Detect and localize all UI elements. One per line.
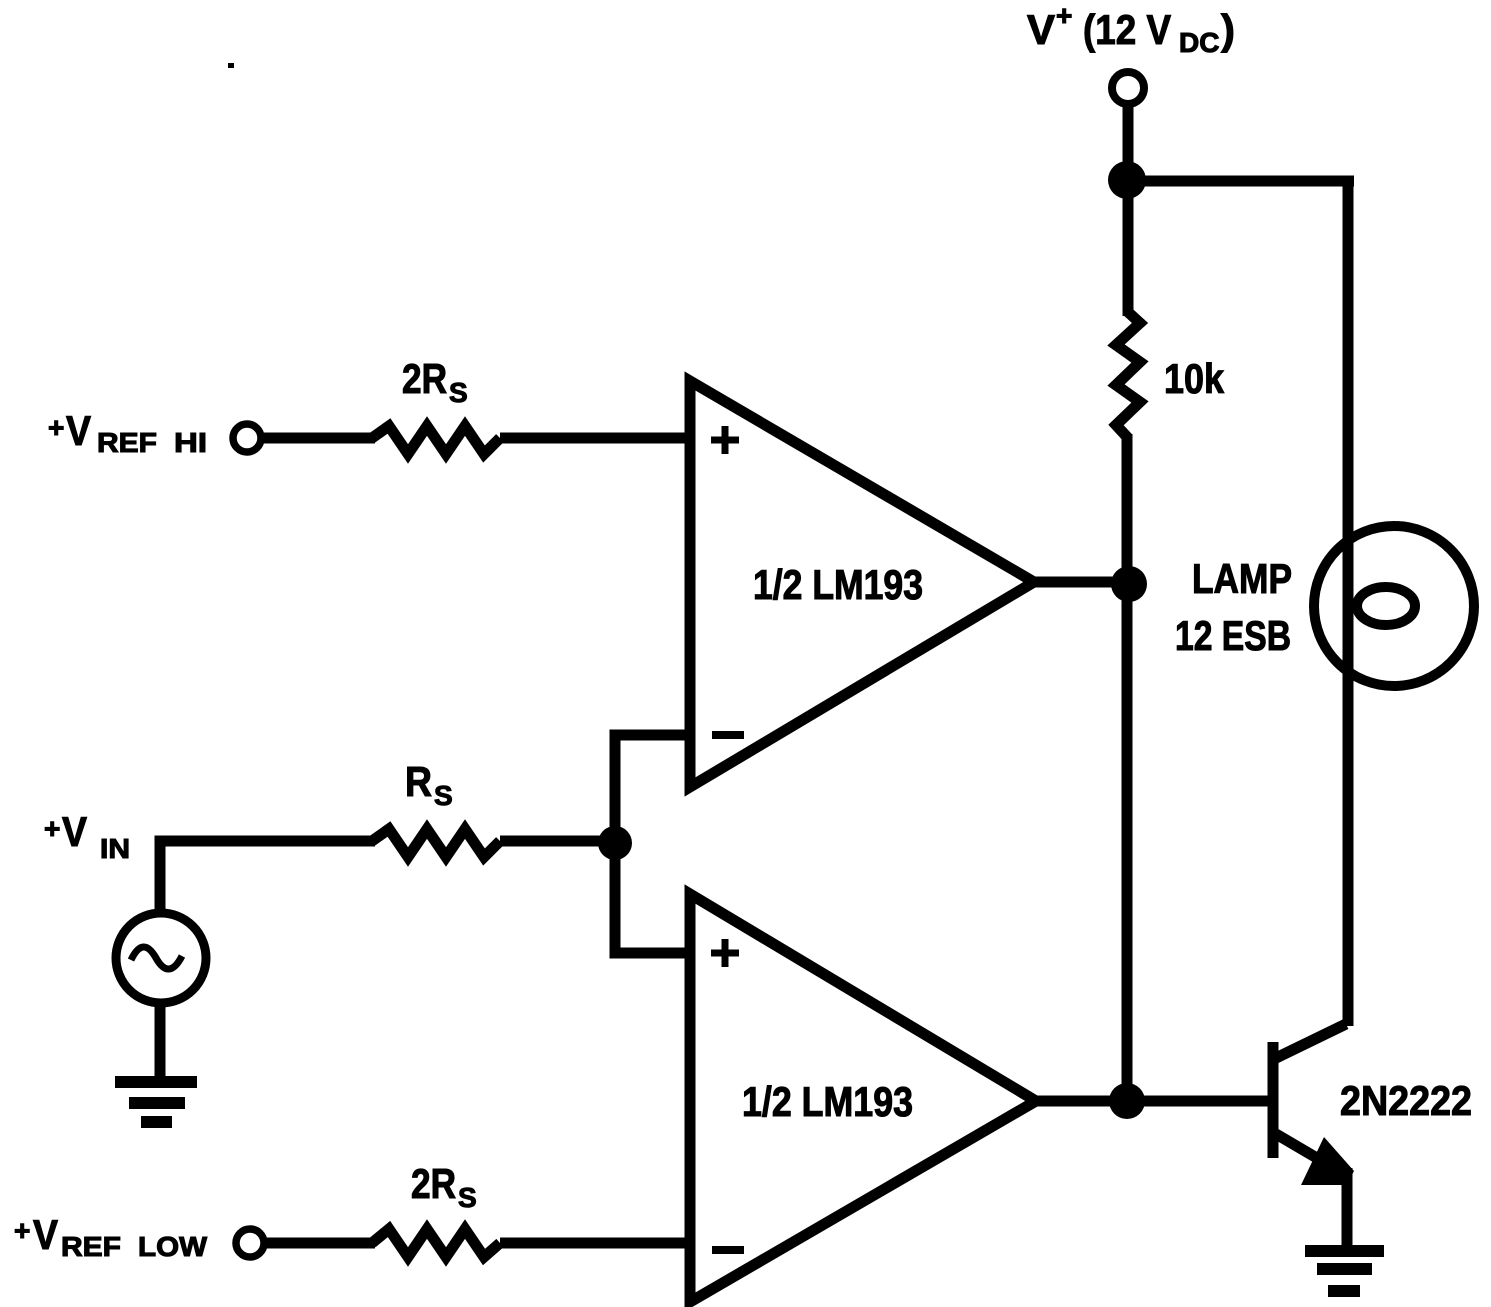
- svg-text:S: S: [449, 377, 468, 408]
- transistor emitter: [1276, 1134, 1322, 1161]
- svg-text:DC: DC: [1179, 27, 1219, 58]
- svg-text:+: +: [48, 412, 64, 443]
- wire op-amp U1A output: [1034, 577, 1127, 588]
- svg-text:V: V: [66, 407, 91, 454]
- label resistor value RS: [405, 758, 453, 811]
- wire resistor to U1B minus input: [500, 1238, 695, 1249]
- label V+ (12 VDC): [1027, 0, 1235, 58]
- wire source to ground: [155, 1003, 166, 1082]
- terminal +VREF LOW: [236, 1229, 264, 1257]
- op-amp U1A 1/2 LM193: [690, 381, 1034, 787]
- wire V+ terminal to junction: [1123, 104, 1134, 316]
- wire lamp branch vertical down to collector: [1343, 181, 1354, 1026]
- svg-text:V: V: [1027, 6, 1055, 53]
- label +VREF HI: [48, 407, 207, 458]
- label resistor value 2RS (top): [402, 355, 468, 408]
- node comparator output junction (bottom): [1109, 1083, 1145, 1119]
- svg-text:HI: HI: [174, 427, 207, 458]
- transistor emitter arrow: [1301, 1137, 1354, 1185]
- svg-text:R: R: [405, 758, 432, 805]
- resistor 2RS (bottom): [372, 1229, 500, 1257]
- op-amp U1B 1/2 LM193: [690, 894, 1036, 1302]
- svg-text:2R: 2R: [411, 1160, 456, 1207]
- svg-text:1/2 LM193: 1/2 LM193: [742, 1078, 913, 1125]
- wire emitter to ground: [1342, 1168, 1353, 1251]
- stray scan speck: [228, 63, 234, 68]
- svg-text:2R: 2R: [402, 355, 447, 402]
- svg-text:2N2222: 2N2222: [1340, 1077, 1472, 1124]
- svg-text:REF: REF: [97, 427, 157, 458]
- op-amp U1B input polarity marks: [711, 939, 744, 1250]
- svg-text:12 ESB: 12 ESB: [1175, 612, 1291, 659]
- svg-text:V: V: [62, 808, 87, 855]
- wire VIN node to U1A minus input: [615, 735, 695, 843]
- svg-text:+: +: [14, 1215, 30, 1246]
- node supply junction dot: [1108, 161, 1146, 199]
- source V1 sine generator: [116, 913, 206, 1003]
- svg-text:+: +: [1056, 0, 1072, 31]
- transistor Q1 2N2222 base bar: [1268, 1042, 1279, 1158]
- ground (emitter): [1305, 1245, 1384, 1257]
- wire VIN node to U1B plus input: [615, 843, 695, 953]
- wire supply junction to lamp branch (horizontal): [1127, 176, 1354, 187]
- svg-text:S: S: [434, 780, 453, 811]
- wire op-amp U1B output to transistor base: [1036, 1096, 1268, 1107]
- node VIN junction dot: [598, 826, 632, 860]
- svg-text:IN: IN: [100, 833, 130, 864]
- svg-text:1/2 LM193: 1/2 LM193: [753, 561, 923, 608]
- resistor 10k: [1116, 312, 1140, 438]
- lamp DS1 12 ESB: [1314, 526, 1474, 686]
- svg-text:REF: REF: [61, 1231, 121, 1262]
- svg-text:LAMP: LAMP: [1192, 555, 1292, 602]
- wire +VIN corner down to source: [160, 841, 375, 913]
- svg-text:+: +: [44, 813, 60, 844]
- svg-text:(12 V: (12 V: [1083, 6, 1171, 53]
- wire RS to VIN node: [500, 836, 615, 847]
- svg-text:10k: 10k: [1164, 355, 1225, 402]
- label +VIN: [44, 808, 130, 864]
- transistor collector: [1276, 1024, 1346, 1058]
- wire resistor to op-amp + input: [500, 433, 695, 444]
- label resistor value 2RS (bottom): [411, 1160, 477, 1213]
- op-amp U1A input polarity marks: [711, 426, 744, 735]
- resistor 2RS (top): [372, 426, 500, 454]
- node V+ supply terminal: [1112, 72, 1144, 104]
- label +VREF LOW: [14, 1211, 208, 1262]
- wire VREF LOW to resistor: [264, 1238, 375, 1249]
- svg-text:LOW: LOW: [138, 1231, 208, 1262]
- svg-text:): ): [1221, 6, 1235, 53]
- wire 10k bottom to output node: [1122, 434, 1133, 1101]
- terminal +VREF HI: [233, 424, 261, 452]
- ground (source): [115, 1076, 197, 1088]
- wire VREF HI to resistor: [261, 433, 375, 444]
- resistor RS: [372, 829, 500, 857]
- svg-text:V: V: [33, 1211, 58, 1258]
- node comparator output junction (top): [1111, 566, 1147, 602]
- svg-text:S: S: [458, 1182, 477, 1213]
